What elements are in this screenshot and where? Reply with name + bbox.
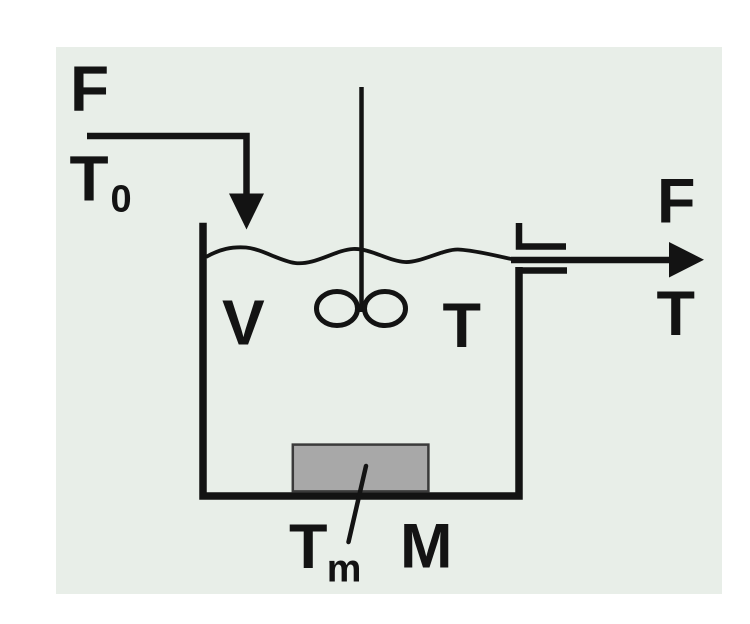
svg-text:V: V [222, 287, 265, 359]
heater block [293, 445, 429, 492]
svg-text:M: M [400, 512, 452, 582]
tank vessel wall [203, 223, 519, 496]
svg-text:0: 0 [111, 179, 132, 221]
svg-text:F: F [70, 53, 109, 125]
label T0 (inlet temperature) [70, 143, 132, 221]
svg-text:m: m [327, 548, 362, 591]
background panel [56, 47, 722, 594]
svg-text:F: F [657, 167, 695, 237]
stirrer impeller right blade [365, 292, 406, 326]
outlet flow wire [511, 257, 672, 264]
outlet arrowhead [669, 242, 704, 278]
stirrer shaft [359, 87, 364, 312]
pointer line to Tm [349, 466, 367, 542]
outlet weir lower lip [519, 267, 567, 274]
liquid surface wavy line [206, 247, 514, 263]
label Tm (metal temperature) [289, 512, 361, 591]
outlet weir upper lip [519, 223, 566, 247]
inlet pipe wire [87, 136, 247, 198]
svg-text:T: T [70, 143, 109, 215]
inlet arrowhead [229, 194, 264, 230]
stirrer impeller left blade [317, 292, 358, 326]
svg-text:T: T [443, 291, 481, 361]
svg-text:T: T [289, 512, 327, 582]
svg-text:T: T [657, 279, 695, 349]
